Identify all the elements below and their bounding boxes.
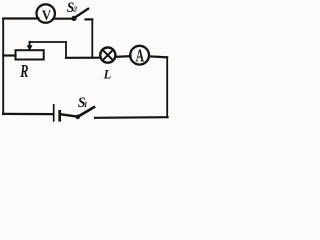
svg-text:1: 1 [84, 100, 88, 109]
svg-text:R: R [20, 61, 29, 81]
svg-text:L: L [103, 67, 112, 81]
svg-text:2: 2 [72, 5, 77, 14]
svg-text:A: A [136, 45, 145, 65]
svg-text:V: V [42, 8, 51, 24]
